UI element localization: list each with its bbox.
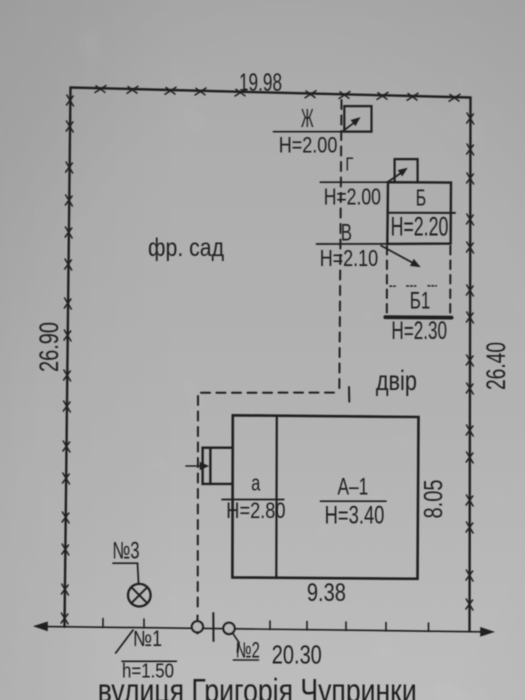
No3 lamp leader drop [138, 563, 139, 584]
No1 slash symbol [116, 630, 133, 653]
plot boundary: right side [470, 98, 471, 632]
gate tick at yard entry [348, 387, 350, 402]
porch outline [203, 448, 233, 484]
dashed path line: lower vertical [197, 396, 199, 612]
boundary hatch marks: top side [95, 86, 460, 102]
label V arrow [381, 246, 413, 263]
gate post circle 2 on street line [223, 623, 234, 634]
dashed path line: horizontal [198, 392, 334, 394]
label V underline + B bottom line [317, 243, 388, 245]
building B divider [388, 212, 455, 214]
label A-1 underline [321, 500, 387, 502]
No2 leader [233, 633, 240, 652]
building B solid outline [387, 182, 451, 244]
plot boundary: top side [71, 88, 471, 98]
label G arrow [388, 173, 401, 182]
B1 dashed left edge [386, 246, 388, 315]
building A-1 inner divider [275, 416, 278, 578]
B1 dashed right edge [449, 246, 451, 315]
dashed path line: upper vertical [339, 100, 341, 392]
label Zh reference rect [344, 106, 371, 132]
No3 lamp leader underline [113, 562, 138, 564]
gate tick between posts [212, 613, 214, 641]
porch step divider [209, 448, 211, 484]
label Zh arrow [341, 122, 355, 132]
street line ticks [103, 619, 429, 632]
No2 underline [233, 659, 258, 661]
building A-1 outline [232, 415, 418, 579]
label G underline + B top line [320, 181, 388, 183]
B1 thick bottom bar [385, 315, 451, 319]
street line with arrows [37, 626, 491, 632]
label Zh underline [274, 131, 345, 133]
B1 inner dash row [390, 285, 437, 287]
boundary hatch marks: left side [61, 95, 73, 624]
gate post circle 1 on street line [192, 621, 203, 632]
lamp symbol circle with cross [128, 584, 151, 607]
label a underline [222, 499, 284, 501]
No1 underline [122, 660, 176, 662]
small annex rect on top of B [395, 159, 418, 182]
plot boundary: left side [65, 88, 71, 627]
boundary hatch marks: right side [466, 113, 474, 610]
entrance arrow [186, 465, 203, 467]
